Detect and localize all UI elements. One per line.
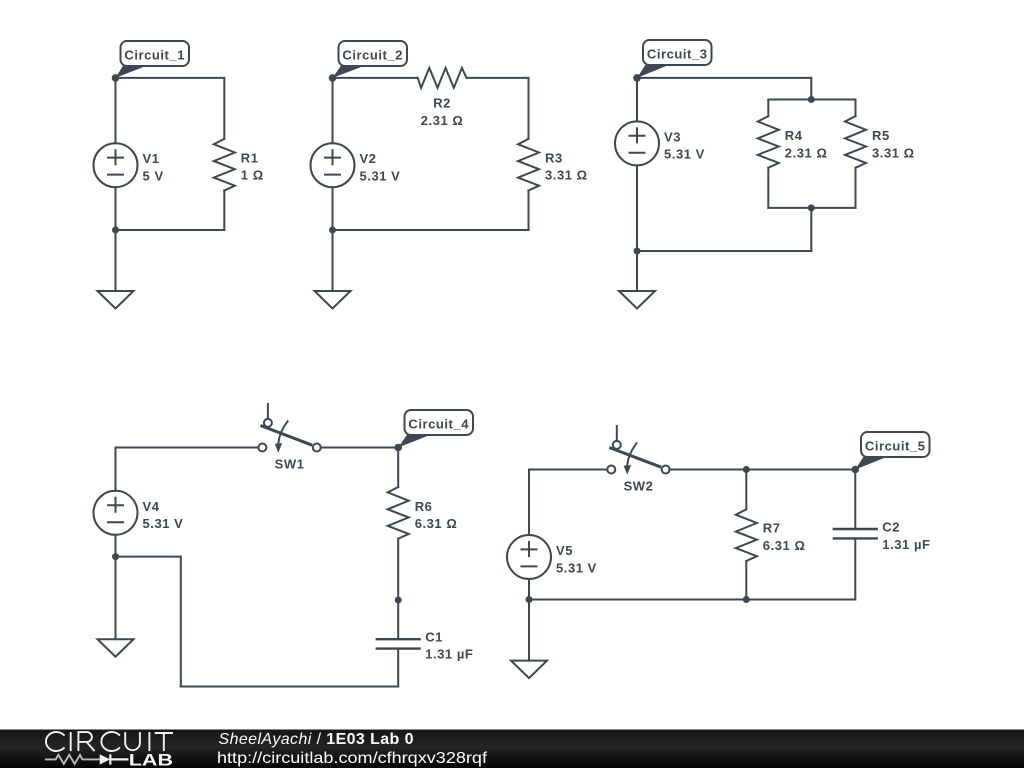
wire: C2 top rail left <box>333 77 418 79</box>
wire: R4 bottom pin <box>767 168 769 208</box>
node: R7 top junction <box>743 466 750 473</box>
wire: R5 top pin <box>855 100 857 117</box>
svg-text:R2: R2 <box>433 96 451 111</box>
svg-text:5.31 V: 5.31 V <box>664 147 705 162</box>
svg-text:V1: V1 <box>143 151 160 166</box>
wire: C3 ground stem <box>636 251 638 291</box>
resistor R6 <box>388 487 409 539</box>
voltage source V2 <box>311 143 355 187</box>
wire: C2 left rail upper <box>332 78 334 143</box>
node Circuit_3 <box>633 74 641 82</box>
wire: C2 ground stem <box>332 230 334 291</box>
svg-text:SW1: SW1 <box>275 457 305 472</box>
svg-text:6.31 Ω: 6.31 Ω <box>415 516 458 531</box>
svg-text:6.31 Ω: 6.31 Ω <box>763 538 806 553</box>
wire: R7 top pin <box>745 470 747 510</box>
wire: C2 top rail right <box>467 77 529 79</box>
voltage source V3 <box>615 121 659 165</box>
svg-text:V3: V3 <box>664 129 681 144</box>
wire: C1 left rail lower <box>115 187 117 230</box>
switch SW1 <box>267 404 269 419</box>
svg-text:Circuit_1: Circuit_1 <box>124 48 185 63</box>
callout Circuit_5 <box>855 456 889 470</box>
svg-text:Circuit_4: Circuit_4 <box>408 417 469 432</box>
wire: R4 top pin <box>767 100 769 117</box>
node Circuit_2 <box>329 74 337 82</box>
wire: C4 top rail right <box>321 447 398 449</box>
wire: C3 parallel bottom bar <box>768 207 855 209</box>
svg-text:1 Ω: 1 Ω <box>241 168 264 183</box>
svg-text:V4: V4 <box>143 499 160 514</box>
ground: C3 <box>619 291 655 309</box>
resistor R2 <box>418 68 467 88</box>
logo letter I <box>148 732 150 751</box>
svg-text:SheelAyachi / 1E03 Lab 0: SheelAyachi / 1E03 Lab 0 <box>219 731 414 748</box>
wire: C2 left rail lower <box>332 187 334 230</box>
wire: C5 left rail upper <box>528 470 530 536</box>
svg-text:LAB: LAB <box>129 750 173 768</box>
wire: C3 drop from parallel bottom <box>810 208 812 251</box>
resistor R4 <box>758 116 779 168</box>
wire: C4 bottom rail <box>181 686 398 688</box>
wire: C1 left rail upper <box>115 78 117 143</box>
svg-text:Circuit_2: Circuit_2 <box>342 48 403 63</box>
svg-text:R6: R6 <box>415 499 433 514</box>
svg-text:5.31 V: 5.31 V <box>143 516 184 531</box>
svg-text:3.31 Ω: 3.31 Ω <box>872 145 915 160</box>
wire: C1 top rail <box>116 77 225 79</box>
wire: V5 bottom lead <box>528 579 530 600</box>
wire: R5 bottom pin <box>855 168 857 208</box>
voltage source V1 <box>94 143 138 187</box>
wire: C5 top rail right <box>669 469 855 471</box>
svg-text:V2: V2 <box>360 151 377 166</box>
callout Circuit_4 <box>398 434 432 448</box>
wire: C1 cap bottom lead <box>397 649 399 687</box>
svg-text:C1: C1 <box>425 629 443 644</box>
wire: C1 bottom rail <box>116 229 225 231</box>
svg-text:3.31 Ω: 3.31 Ω <box>545 168 588 183</box>
callout Circuit_1 <box>116 65 149 78</box>
node Circuit_5 <box>852 466 860 474</box>
wire: C4 right rail to R6 <box>397 448 399 488</box>
resistor R5 <box>845 116 866 168</box>
node: C3 bottom junction <box>634 248 641 255</box>
voltage source V4 <box>94 491 138 535</box>
capacitor C1 <box>376 639 421 648</box>
wire: C4 left rail upper <box>115 448 117 491</box>
svg-text:R7: R7 <box>763 521 781 536</box>
logo diode <box>100 754 110 764</box>
node: parallel bottom junction <box>808 204 815 211</box>
switch SW2 <box>616 426 618 441</box>
wire: C2 cap top lead <box>854 470 856 530</box>
wire: C1 right rail lower <box>223 191 225 231</box>
svg-text:1.31 µF: 1.31 µF <box>882 537 930 552</box>
wire: C2 right rail lower <box>528 191 530 231</box>
node: V4 bottom junction <box>112 553 119 560</box>
wire: C5 top rail left <box>529 469 607 471</box>
node: parallel top junction <box>808 96 815 103</box>
wire: C1 ground stem <box>115 230 117 291</box>
svg-text:5.31 V: 5.31 V <box>360 169 401 184</box>
wire: C4 top rail left <box>116 447 259 449</box>
wire: C3 drop to parallel top <box>810 78 812 100</box>
wire: C3 top rail <box>637 77 811 79</box>
svg-text:R3: R3 <box>545 150 563 165</box>
node: C2 bottom junction <box>329 227 336 234</box>
svg-text:R4: R4 <box>785 128 803 143</box>
svg-text:1.31 µF: 1.31 µF <box>425 647 473 662</box>
callout Circuit_3 <box>637 64 671 78</box>
callout Circuit_2 <box>333 65 367 78</box>
wire: C5 ground stem <box>528 600 530 661</box>
logo letter C <box>101 732 120 751</box>
node Circuit_4 <box>394 444 402 452</box>
svg-text:5.31 V: 5.31 V <box>556 560 597 575</box>
svg-text:R5: R5 <box>872 128 890 143</box>
ground: C4 <box>98 639 134 657</box>
svg-text:Circuit_5: Circuit_5 <box>865 439 926 454</box>
wire: V4 bottom lead <box>115 535 117 557</box>
resistor R1 <box>214 139 235 191</box>
logo letter C <box>46 732 65 751</box>
logo letter U <box>125 732 140 750</box>
wire: C5 bottom rail <box>529 599 855 601</box>
wire: C3 parallel top bar <box>768 99 855 101</box>
logo letter R <box>78 732 94 751</box>
wire: R6 to C1 cap <box>397 539 399 640</box>
svg-text:R1: R1 <box>241 150 259 165</box>
wire: C4 ground stem <box>115 557 117 640</box>
svg-text:SW2: SW2 <box>624 479 654 494</box>
svg-text:V5: V5 <box>556 543 573 558</box>
ground: C1 <box>98 291 134 309</box>
ground: C5 <box>511 661 547 679</box>
logo letter T <box>155 733 173 751</box>
wire: C1 right rail upper <box>223 78 225 139</box>
capacitor C2 <box>833 529 878 538</box>
svg-text:Circuit_3: Circuit_3 <box>647 47 708 62</box>
voltage source V5 <box>507 535 551 579</box>
wire: C2 right rail upper <box>528 78 530 139</box>
wire: C3 left rail upper <box>636 78 638 122</box>
svg-text:2.31 Ω: 2.31 Ω <box>785 145 828 160</box>
node: V5 bottom junction <box>526 596 533 603</box>
svg-text:http://circuitlab.com/cfhrqxv3: http://circuitlab.com/cfhrqxv328rqf <box>217 750 488 767</box>
ground: C2 <box>315 291 351 309</box>
logo wire with resistor <box>45 755 100 764</box>
svg-text:5 V: 5 V <box>143 169 164 184</box>
wire: C2 cap bottom lead <box>854 538 856 599</box>
wire: C3 left rail lower <box>636 165 638 251</box>
wire: C4 stub to V4 node <box>116 556 181 558</box>
node: C1 bottom junction <box>112 227 119 234</box>
logo letter I <box>70 732 72 751</box>
node: R7 bottom junction <box>743 596 750 603</box>
svg-text:2.31 Ω: 2.31 Ω <box>421 113 464 128</box>
resistor R3 <box>518 139 539 191</box>
node: R6/C1 junction <box>395 597 402 604</box>
resistor R7 <box>736 509 757 561</box>
node Circuit_1 <box>112 74 120 82</box>
wire: C2 bottom rail <box>333 229 529 231</box>
wire: C3 bottom rail <box>637 250 811 252</box>
wire: R7 bottom pin <box>745 561 747 600</box>
wire: C4 left riser <box>180 557 182 687</box>
svg-text:C2: C2 <box>882 520 900 535</box>
